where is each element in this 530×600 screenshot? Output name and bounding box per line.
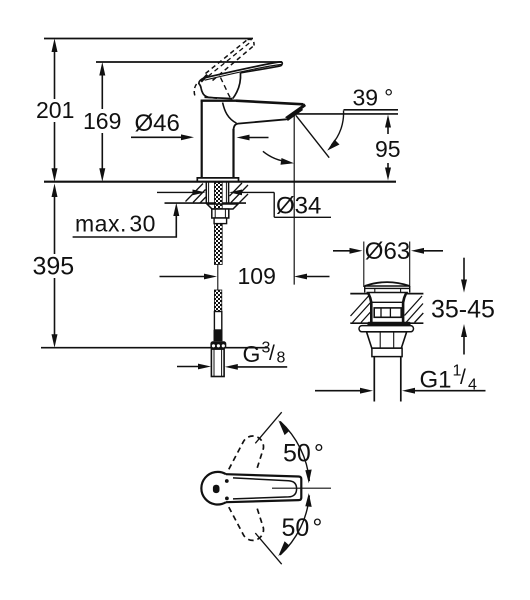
G3/8 dimension left arrow bbox=[177, 366, 200, 368]
flexible hose braided section bbox=[214, 290, 221, 312]
drain cap base ring bbox=[365, 286, 410, 293]
svg-text:4: 4 bbox=[468, 377, 477, 394]
dimension 109 left arrow bbox=[160, 276, 206, 278]
upper arc arrowhead at extension line bbox=[278, 420, 289, 435]
dimension 35-45 lower arrow bbox=[463, 333, 465, 355]
upper 50 extension line bbox=[255, 412, 281, 443]
mounting nut bbox=[212, 209, 229, 218]
hose centerline break bbox=[217, 265, 219, 291]
Ø46 right arrow at faucet right side bbox=[247, 137, 269, 139]
svg-text:50°: 50° bbox=[282, 514, 323, 542]
deck hatch left block bbox=[186, 184, 206, 204]
dimension 395 bottom arrow bbox=[52, 334, 58, 348]
spout outlet aerator face bbox=[285, 104, 306, 120]
mounting collar bbox=[214, 218, 227, 224]
svg-text:G1: G1 bbox=[420, 367, 452, 394]
svg-text:395: 395 bbox=[33, 253, 75, 281]
lever base bottom edge bbox=[205, 97, 233, 98]
lever blade underside bbox=[241, 64, 283, 73]
knob dot lower bbox=[225, 497, 229, 501]
Ø34 leader right arrow bbox=[241, 191, 274, 193]
svg-text:39°: 39° bbox=[353, 85, 394, 111]
handle blade inner line bbox=[233, 478, 297, 499]
hose nut with knurl dots bbox=[210, 341, 226, 349]
faucet base plate on deck bbox=[197, 178, 238, 182]
drain locknut bbox=[367, 332, 407, 348]
faucet body left edge bbox=[201, 101, 203, 179]
svg-text:Ø63: Ø63 bbox=[365, 238, 410, 265]
lower arc arrowhead at extension line bbox=[278, 541, 289, 556]
svg-text:169: 169 bbox=[83, 108, 121, 134]
water stream direction line bbox=[296, 115, 329, 157]
dimension 201 top arrow bbox=[52, 39, 58, 53]
drain deck section top line bbox=[350, 293, 423, 295]
upper arc arrowhead at centerline bbox=[305, 470, 311, 484]
spout underside edge bbox=[234, 119, 287, 129]
Ø63 dimension left arrow bbox=[333, 250, 351, 252]
handle knob circle bbox=[201, 472, 226, 505]
svg-text:/: / bbox=[269, 342, 275, 365]
svg-text:35-45: 35-45 bbox=[431, 296, 495, 324]
drain tail pipe bbox=[373, 357, 375, 402]
dimension 35-45 upper arrow bbox=[463, 258, 465, 284]
dimension 169 vertical line bbox=[101, 67, 103, 109]
drain deck section bottom line bbox=[350, 322, 423, 324]
drain valve body walls bbox=[368, 293, 371, 323]
dimension 95 upper arrow bbox=[387, 120, 389, 134]
raised lever dashed upper edge bbox=[206, 40, 248, 74]
deck hatch right block bbox=[230, 183, 249, 203]
Ø63 dimension right arrow bbox=[423, 250, 444, 252]
raised lever dashed lower edge bbox=[213, 46, 255, 81]
dashed handle rotated up 50 bbox=[229, 436, 264, 470]
svg-text:G: G bbox=[243, 341, 261, 367]
raised lever dashed tip cap bbox=[248, 39, 255, 45]
G3/8 dimension right arrow with leader bbox=[238, 366, 288, 368]
top reference line (201 dim, raised lever height) bbox=[44, 38, 253, 40]
lever knob outline bbox=[199, 78, 217, 98]
lever neck back curve bbox=[233, 73, 241, 99]
dashed handle rotated down 50 bbox=[229, 507, 264, 541]
drain collar bbox=[372, 348, 402, 356]
svg-text:109: 109 bbox=[238, 263, 276, 289]
dimension 395 top arrow bbox=[52, 184, 58, 198]
max.30 leader underline and vertical arrow bbox=[73, 213, 177, 237]
handle axis centerline bbox=[272, 487, 331, 489]
svg-text:95: 95 bbox=[375, 136, 401, 162]
raised lever knob dashed mark bbox=[194, 84, 196, 98]
svg-text:201: 201 bbox=[36, 97, 74, 123]
drain cap dome bbox=[365, 282, 410, 286]
G1 1/4 dimension right arrow with leader bbox=[415, 390, 486, 392]
upper 50 arc bbox=[280, 421, 309, 481]
drain overflow windows bbox=[374, 308, 401, 317]
faucet body right edge bbox=[232, 129, 234, 178]
drain valve interior line bbox=[371, 301, 403, 303]
bottom reference line (supply connection level) bbox=[41, 347, 268, 349]
drain deck hatch left bbox=[351, 296, 372, 323]
39 degree arc left with arrow onto vertical line bbox=[263, 151, 288, 162]
G1 1/4 dimension left arrow bbox=[315, 390, 362, 392]
lever blade left end cap bbox=[201, 75, 207, 82]
svg-text:Ø46: Ø46 bbox=[135, 110, 180, 137]
drain rubber seal bbox=[367, 322, 410, 326]
drain deck hatch right bbox=[405, 296, 424, 323]
shank hole walls bbox=[205, 183, 207, 204]
hose crimp sleeve bbox=[214, 330, 223, 341]
faucet body top line bbox=[201, 99, 236, 101]
dimension 201 bottom arrow bbox=[52, 168, 58, 182]
lower 50 extension line bbox=[255, 533, 281, 564]
svg-text:max.30: max.30 bbox=[75, 211, 156, 237]
lever hidden cartridge dashed line bbox=[221, 78, 231, 99]
39 degree leader underline bbox=[344, 109, 399, 111]
svg-text:50°: 50° bbox=[283, 440, 324, 468]
Ø46 leader line with arrow at faucet left side bbox=[131, 136, 183, 138]
raised lever dashed middle edge bbox=[208, 42, 250, 76]
dimension 169 top arrow bbox=[99, 62, 105, 76]
Ø34 leader vertical and underline bbox=[274, 192, 331, 217]
Ø34 leader left arrow bbox=[157, 191, 194, 193]
39 degree arc right with arrow onto stream line bbox=[332, 111, 344, 146]
outlet vertical projection line bbox=[293, 115, 295, 285]
deck line (mounting surface) bbox=[44, 181, 396, 183]
shank inner wall lines bbox=[208, 183, 210, 204]
mounting washer under deck bbox=[207, 204, 238, 209]
flexible hose smooth tube bbox=[214, 312, 221, 331]
drain flange washer bbox=[359, 326, 414, 332]
spout inner fillet curve bbox=[223, 103, 237, 124]
svg-text:Ø34: Ø34 bbox=[276, 193, 321, 220]
svg-text:8: 8 bbox=[277, 350, 286, 367]
lower arc arrowhead at centerline bbox=[305, 493, 311, 507]
dimension 395 vertical line bbox=[54, 189, 56, 254]
G3/8 male thread bbox=[211, 349, 224, 376]
dimension 95 lower arrow bbox=[387, 163, 389, 174]
169 reference line (lever height) bbox=[96, 61, 282, 63]
spout top edge bbox=[236, 101, 304, 105]
deck section bottom line bbox=[165, 202, 247, 204]
knob dot upper bbox=[225, 479, 229, 483]
dimension 169 bottom arrow bbox=[99, 168, 105, 182]
lower 50 arc bbox=[280, 495, 309, 555]
knob indicator capsule bbox=[213, 485, 220, 493]
lever blade top edge (double line) bbox=[204, 62, 282, 78]
threaded shank rod bbox=[214, 183, 222, 265]
svg-text:/: / bbox=[460, 366, 466, 389]
Ø63 extension lines bbox=[363, 242, 365, 288]
dimension 109 right arrow bbox=[306, 276, 330, 278]
dimension 201 vertical line bbox=[54, 44, 56, 99]
handle blade outline bbox=[226, 474, 301, 502]
outlet height reference line for 95 bbox=[296, 113, 398, 115]
